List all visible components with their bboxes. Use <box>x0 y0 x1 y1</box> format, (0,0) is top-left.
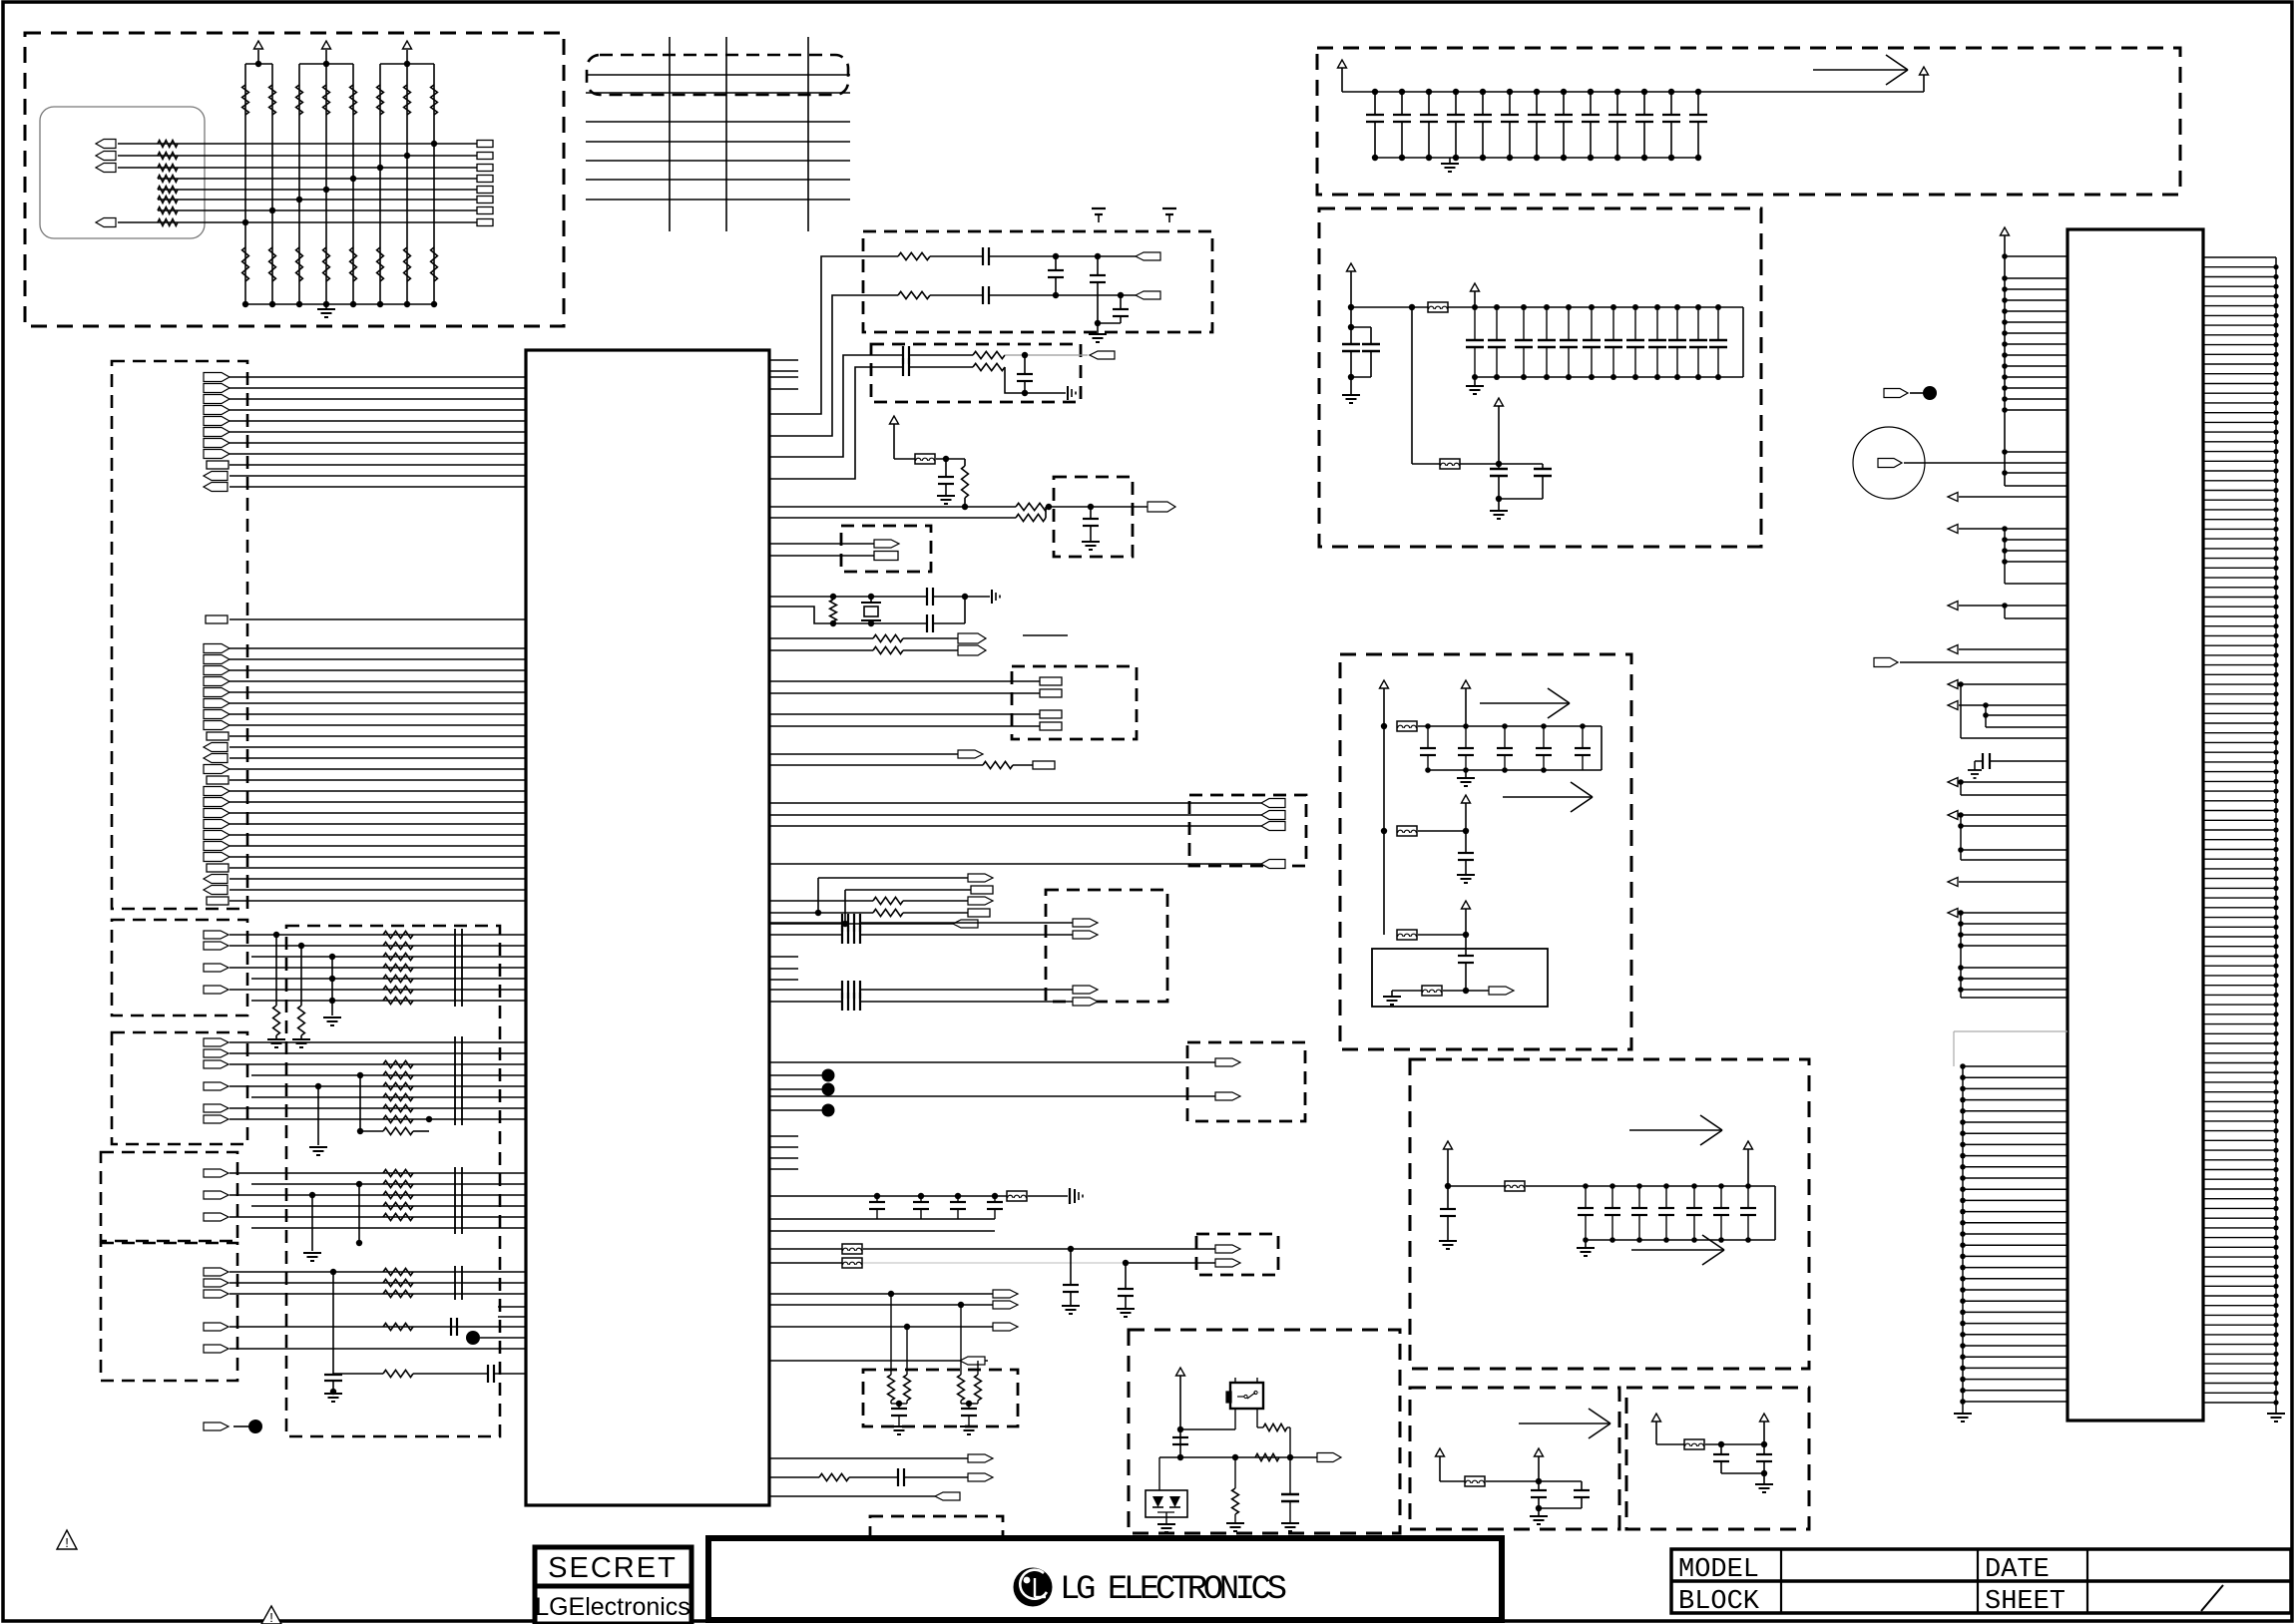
flow arrow (LDO1) <box>1519 1422 1610 1424</box>
ground (filter low) <box>1498 499 1500 510</box>
filter C droppers <box>303 1181 362 1261</box>
svg-text:SECRET: SECRET <box>548 1552 678 1584</box>
power arrow (chg in) <box>1444 1141 1453 1149</box>
wire <box>849 1476 898 1478</box>
series resistors RN1 (8x) <box>158 141 178 226</box>
terminal (aux 2) <box>1033 761 1055 769</box>
wire W1 (clock out) <box>769 506 1016 508</box>
ground (decoupling bank) <box>1449 158 1451 164</box>
test point (tp 2) <box>822 1083 835 1096</box>
filter D wire with RC <box>204 1318 526 1336</box>
filter A series resistors <box>383 931 413 1004</box>
resistor (det series) <box>1263 1423 1287 1430</box>
wire (ctrl 1) <box>769 637 873 639</box>
wire stubs U1 right top <box>769 359 798 361</box>
ground (PA bank) <box>1465 770 1467 778</box>
capacitor C series (RF1 bot) <box>982 286 984 304</box>
resistor R (RF1 bot) <box>898 291 930 298</box>
power arrow (LDO1 out) <box>1535 1448 1544 1456</box>
lcd RC pair 2 <box>958 1305 982 1434</box>
top supply bars <box>245 50 434 67</box>
ground cap (RF2) <box>1067 386 1069 400</box>
pull-down resistors (8x) <box>242 247 438 281</box>
ground (bias) <box>1383 996 1401 998</box>
terminal (debug 1) <box>874 540 899 548</box>
capacitor C series (audio 4b) <box>853 993 855 1011</box>
terminal (audio line 1) <box>1215 1245 1240 1253</box>
svg-text:BLOCK: BLOCK <box>1678 1587 1760 1617</box>
wire (uart E) <box>769 923 953 925</box>
block: bias module <box>1372 949 1548 1007</box>
svg-text:LGElectronics: LGElectronics <box>535 1593 690 1621</box>
capacitor (LDO2 b) <box>1763 1444 1765 1454</box>
microphone MK1 (circle) <box>1853 427 1925 499</box>
capacitor (PLL) <box>945 459 947 477</box>
ferrite bead (LDO2) <box>1684 1439 1704 1449</box>
terminal (lcd 4) <box>960 1357 985 1365</box>
capacitor (PA 2) <box>1465 831 1467 853</box>
decoupling rails <box>1342 92 1701 158</box>
capacitor (det top) <box>1172 1436 1188 1438</box>
ferrite bead (audio 1) <box>842 1244 862 1254</box>
ferrite bead (LDO1) <box>1465 1476 1485 1486</box>
terminal (ctrl 1) <box>958 633 986 643</box>
wire <box>1486 1480 1582 1482</box>
wire (aux 1) <box>769 753 958 755</box>
U2 group OE <box>1948 680 2067 739</box>
terminal TP (left low) <box>204 1422 229 1430</box>
memory port wires <box>769 681 1040 726</box>
dashed block: VBAT decoupling bank <box>1317 48 2180 195</box>
wire (uart D) <box>769 912 873 914</box>
dashed block: audio out <box>1046 890 1167 1002</box>
ground (XTAL) <box>991 590 993 604</box>
resistor (det shunt) <box>1234 1457 1236 1488</box>
flow arrow (chg 1) <box>1629 1129 1722 1131</box>
power arrow (LDO1 in) <box>1436 1448 1445 1456</box>
power arrow (filter input) <box>1347 263 1356 271</box>
power arrow (PA 2) <box>1462 795 1471 803</box>
capacitor C series (pwm 2) <box>897 1468 899 1486</box>
ground (audio 1) <box>1062 1305 1080 1307</box>
PA supply rail <box>1383 726 1385 935</box>
wire: single control line <box>230 618 526 620</box>
wire (XTAL bottom rail) <box>769 607 926 623</box>
svg-text:DATE: DATE <box>1985 1555 2050 1585</box>
filter C coupling caps (bus) <box>455 1167 462 1234</box>
LG logo emblem <box>1014 1568 1053 1607</box>
capacitor (LDO1 a) <box>1538 1481 1540 1490</box>
terminal (uart B) <box>971 886 993 894</box>
power arrow (filter mid) <box>1471 283 1480 291</box>
wire (audio 2) <box>769 934 842 936</box>
U2 ground pins (left bottom bank) <box>1960 1063 2067 1409</box>
ground (diode) <box>1165 1519 1167 1523</box>
title block: model/sheet table <box>1671 1549 2291 1613</box>
wire to VBAT arrow right <box>1701 91 1924 93</box>
ground (input caps) <box>1350 377 1352 394</box>
capacitor shunt (audio 2) <box>1125 1263 1127 1289</box>
ground (RF1) <box>1097 323 1099 333</box>
ground (filter bank) <box>1474 377 1476 385</box>
wire branch down <box>1411 307 1413 464</box>
U2 group LB <box>1948 778 2067 796</box>
filter A pull-down resistors <box>267 932 310 1047</box>
capacitor (standalone 2) <box>1162 207 1176 209</box>
bus horizontal wires <box>586 75 850 200</box>
test point (filled) <box>248 1420 262 1433</box>
filter A coupling caps (bus) <box>455 929 462 1007</box>
ground (PLL) <box>937 495 955 497</box>
power arrow (filter low) <box>1495 398 1504 406</box>
test point (tp 1) <box>822 1069 835 1082</box>
wire <box>863 1262 1126 1264</box>
ground cap (VDD core) <box>1028 1195 1068 1197</box>
wire (audio 3) <box>769 989 842 991</box>
resistor (ctrl 2) <box>873 646 903 653</box>
dashed block: RF filter 1 <box>863 231 1212 332</box>
wire <box>989 294 1136 296</box>
dashed block: small (bottom center) <box>870 1516 1003 1552</box>
power arrow (PA mid) <box>1462 680 1471 688</box>
dashed block: lcd RC network <box>863 1370 1018 1426</box>
bus A terminals <box>204 373 230 492</box>
wire W2 <box>769 517 1016 519</box>
U2 group CS <box>1948 525 2067 585</box>
wire <box>1705 1443 1764 1445</box>
capacitor (LDO2 a) <box>1720 1444 1722 1454</box>
svg-text:MODEL: MODEL <box>1678 1555 1759 1585</box>
dashed block: RF filter 2 <box>871 344 1081 402</box>
terminal (lcd 3) <box>993 1323 1018 1331</box>
capacitor shunt (RF1 out) <box>1120 295 1122 309</box>
dashed block: connector bank A <box>112 361 247 909</box>
wire (light) <box>1005 354 1088 356</box>
wire (debug 1) <box>769 543 874 545</box>
filter D series resistors <box>383 1268 413 1297</box>
wire (uart C) <box>769 900 873 902</box>
ground (chg bank) <box>1585 1240 1587 1248</box>
capacitor shunt (RF1 mid) <box>1055 256 1057 270</box>
wire <box>860 922 1073 924</box>
terminal (U2 ctl) <box>1874 658 1898 667</box>
dashed block: connector bank D <box>101 1152 237 1241</box>
wire (det row) <box>1159 1456 1317 1458</box>
power arrow (det) <box>1176 1368 1185 1376</box>
U2 group ADV <box>1948 811 2067 861</box>
wire (lcd 2) <box>769 1304 993 1306</box>
ground (U2 right) <box>2275 1409 2277 1413</box>
ground (det cap) <box>1281 1522 1299 1524</box>
ground (clock filter) <box>1082 541 1100 543</box>
ferrite bead (audio 2) <box>842 1258 862 1268</box>
wire <box>1048 506 1148 508</box>
capacitor (bias) <box>1465 935 1467 956</box>
terminal (audio 3) <box>1073 986 1098 994</box>
wire riser 3 <box>769 355 903 457</box>
title block: SECRET box <box>535 1547 691 1624</box>
capacitor C series (RF2 top) <box>902 346 904 364</box>
wire (tp 3) <box>769 1109 822 1111</box>
wire <box>1418 830 1466 832</box>
wire (ctrl 2) <box>769 649 873 651</box>
dashed block: debug port <box>841 526 931 572</box>
IC U1 (baseband processor) <box>526 350 769 1505</box>
ferrite bead (PA 1) <box>1397 721 1417 731</box>
terminal (pwm 1) <box>968 1454 993 1462</box>
flow arrow (PA 1) <box>1480 702 1570 704</box>
filter A ground dropper <box>323 954 341 1025</box>
SIM wires <box>769 803 1261 864</box>
connector J1 pins <box>96 140 116 227</box>
wire bend <box>1005 367 1025 393</box>
wire riser 4 <box>769 367 903 479</box>
resistor R (W2) <box>1016 514 1046 521</box>
resistor (XTAL) <box>830 600 837 621</box>
terminal (W1) <box>1148 502 1175 512</box>
bus B terminals <box>204 644 230 785</box>
ground (chg in) <box>1439 1240 1457 1242</box>
dashed block: SIM port <box>1189 795 1306 866</box>
U2 input pin (arrow 3) <box>1948 878 1958 887</box>
wire (key 2) <box>769 1095 1215 1097</box>
block: switch S1 <box>1230 1383 1263 1409</box>
ground (LDO2) <box>1763 1473 1765 1483</box>
wire (mic) <box>1904 462 2067 464</box>
terminal (uart C) <box>968 897 993 905</box>
dashed block: charger power rail <box>1410 1059 1809 1369</box>
bus C terminals <box>204 787 230 906</box>
VDD core capacitors (4x) <box>869 1196 1003 1219</box>
bottom rail <box>242 301 437 307</box>
terminal (det out) <box>1317 1453 1341 1462</box>
crystal Y1 <box>861 602 881 604</box>
wire (switch right lead) <box>1256 1409 1258 1427</box>
wire <box>1392 990 1422 992</box>
power arrow VCC (keypad, left) <box>254 41 263 49</box>
power arrow (LDO2 in) <box>1652 1414 1661 1421</box>
capacitor C series (RF2 bot) <box>902 358 904 376</box>
dashed block: memory port <box>1012 666 1137 739</box>
flow arrow (chg 2) <box>1631 1249 1724 1251</box>
filter C series resistors <box>383 1169 413 1220</box>
wire (lcd 3) <box>769 1326 993 1328</box>
wire <box>860 1001 1073 1003</box>
charger capacitor bank (7x) <box>1578 1183 1775 1243</box>
wire <box>936 458 965 460</box>
capacitor C (XTAL top) <box>926 588 928 606</box>
wire <box>903 912 968 914</box>
terminal (audio 1) <box>1073 919 1098 927</box>
PA capacitor bank (5x) <box>1420 723 1602 773</box>
wire stub (lcd if a) <box>498 1306 526 1308</box>
test point (U2) <box>1923 386 1937 400</box>
wire (tp 2) <box>769 1088 822 1090</box>
ferrite bead FB2 <box>1440 459 1460 469</box>
svg-text:SHEET: SHEET <box>1985 1587 2066 1617</box>
wire riser 1 (U1 pin to RF filter) <box>769 256 898 414</box>
resistor (PLL) <box>964 459 966 466</box>
resistor R (RF2 top) <box>973 351 1005 358</box>
wire bend W2 <box>1045 507 1047 518</box>
power arrow (LDO2 out) <box>1760 1414 1769 1421</box>
U2 input pin (arrow) <box>1948 493 1958 502</box>
wire (uart A) <box>818 877 968 879</box>
terminal (aux 1) <box>958 750 983 758</box>
ferrite bead (PA 2) <box>1397 826 1417 836</box>
dashed block: keypad connector network <box>25 33 564 326</box>
filter D wires <box>230 1272 526 1294</box>
diode pair D1 <box>1158 1457 1160 1490</box>
dashed block: clock filter <box>1054 477 1133 557</box>
title block: logo box <box>708 1538 1502 1620</box>
wire (XTAL join) <box>933 596 965 598</box>
capacitor (chg in) <box>1447 1186 1449 1209</box>
resistor R (W1) <box>1016 503 1048 510</box>
terminal (debug 2) <box>874 552 898 561</box>
filter C terminals <box>204 1169 229 1221</box>
riser (uart A) <box>817 878 819 913</box>
terminal (lcd 1) <box>993 1290 1018 1298</box>
power arrow VBAT (bank right) <box>1920 67 1929 75</box>
capacitor C series (audio 2a) <box>841 926 843 944</box>
wire (aux 2) <box>769 764 983 766</box>
svg-text:!: ! <box>269 1610 273 1624</box>
dashed block: LDO 2 <box>1626 1388 1809 1529</box>
dashed block: interface filter network <box>286 926 500 1436</box>
terminal (pwm 3) <box>935 1492 960 1500</box>
terminal (ctrl 2) <box>958 645 986 655</box>
capacitor (standalone 1) <box>1092 207 1106 209</box>
terminal (U2 tp) <box>1884 389 1908 398</box>
wire <box>903 900 968 902</box>
pull-up resistors (8x) <box>242 85 438 115</box>
riser (uart B) <box>844 890 846 924</box>
test point wire (mid) <box>480 1337 526 1339</box>
lcd RC pair 1 <box>888 1294 911 1434</box>
capacitor (U2 vref) <box>1990 760 2067 762</box>
bus vertical wires <box>670 37 808 231</box>
U2 data pins (right bank) <box>2203 257 2279 1409</box>
U2 group WE <box>1948 602 2067 619</box>
filter D terminals <box>204 1268 229 1298</box>
wire <box>930 294 983 296</box>
wire <box>903 637 958 639</box>
capacitor C (XTAL bot) <box>926 614 928 632</box>
wire (audio line 2) <box>769 1262 842 1264</box>
filter D coupling caps (bus) <box>455 1266 462 1300</box>
wire (pwm 3) <box>769 1495 935 1497</box>
wire <box>1418 934 1466 936</box>
filter capacitor bank (12x) <box>1448 304 1743 380</box>
resistor (uart D) <box>873 909 903 916</box>
wire <box>930 255 983 257</box>
wire (uart B) <box>845 889 971 891</box>
power arrow (chg out) <box>1744 1141 1753 1149</box>
terminal (key 2) <box>1215 1092 1240 1100</box>
warning triangle 2 <box>261 1606 281 1624</box>
wire <box>1418 725 1602 727</box>
flow arrow (bank) <box>1813 69 1908 71</box>
power arrow VCC (keypad, mid) <box>322 41 331 49</box>
svg-text:LG ELECTRONICS: LG ELECTRONICS <box>1060 1571 1287 1609</box>
power arrow VCC (keypad, right) <box>403 41 412 49</box>
capacitor (clock filter) <box>1090 507 1092 519</box>
dashed block: connector bank E <box>101 1243 237 1381</box>
filter B droppers <box>309 1072 432 1155</box>
bus A wires <box>230 377 526 487</box>
connector J1 body <box>40 107 205 238</box>
terminal (audio 2) <box>1073 931 1098 939</box>
wire stubs (mid) <box>769 1135 798 1137</box>
resistor (aux 2) <box>983 761 1013 768</box>
wire <box>860 989 1073 991</box>
terminal (lcd 2) <box>993 1301 1018 1309</box>
wire <box>894 458 915 460</box>
terminal (RF2) <box>1090 351 1115 359</box>
terminal (RF1 bot) <box>1136 291 1160 299</box>
U2 supply pins (left top) <box>2002 253 2067 476</box>
ground (audio 2) <box>1117 1308 1135 1310</box>
row output terminals <box>477 141 493 226</box>
filter A wires <box>230 935 526 1001</box>
terminal (key 1) <box>1215 1058 1240 1066</box>
filter B terminals <box>204 1038 229 1123</box>
wire (VDD core) <box>769 1195 1007 1197</box>
capacitor (det shunt) <box>1289 1457 1291 1494</box>
resistor (pwm 2) <box>819 1473 849 1480</box>
capacitor C series (audio 3b) <box>853 981 855 999</box>
wire stub (ctrl) <box>1023 634 1068 636</box>
wire (pwm 2) <box>769 1476 819 1478</box>
wire (audio 4) <box>769 1001 842 1003</box>
memory port terminals <box>1040 677 1062 730</box>
ground (keypad network) <box>325 304 327 309</box>
terminal (pwm 2) <box>968 1473 993 1481</box>
wire <box>903 649 958 651</box>
keypad row wires <box>118 144 477 222</box>
ferrite bead (PA 3) <box>1397 930 1417 940</box>
ferrite bead (bias) <box>1422 986 1442 996</box>
wire (filter rail) <box>1351 306 1428 308</box>
test point (tp 3) <box>822 1104 835 1117</box>
terminal (control line) <box>206 615 228 623</box>
wire <box>909 354 973 356</box>
terminal (mic) <box>1878 459 1902 468</box>
filter A terminals <box>204 931 229 994</box>
ferrite bead (chg) <box>1505 1181 1525 1191</box>
wire (XTAL top rail) <box>769 596 926 598</box>
resistor (uart C) <box>873 897 903 904</box>
capacitor shunt (RF2) <box>1024 355 1026 374</box>
terminal (uart D) <box>968 909 990 917</box>
decoupling capacitors C-bank (13x) <box>1366 89 1707 161</box>
wire (key 1) <box>769 1061 1215 1063</box>
capacitor C series (RF1 top) <box>982 247 984 265</box>
wire riser 2 (U1 pin to RF filter) <box>769 295 898 436</box>
terminal (audio 4) <box>1073 998 1098 1006</box>
terminal (uart A) <box>968 874 993 882</box>
input capacitor Ca <box>1348 324 1354 330</box>
bus C wires <box>230 791 526 901</box>
terminal (bias) <box>1466 990 1489 992</box>
wire (audio 1) <box>769 922 842 924</box>
wire to ground cap <box>1025 392 1066 394</box>
wire (switch left lead) <box>1234 1409 1236 1429</box>
wire (tp 1) <box>769 1074 822 1076</box>
U2 group CLK <box>1948 909 2067 999</box>
power arrow VBAT (bank left) <box>1338 60 1347 68</box>
